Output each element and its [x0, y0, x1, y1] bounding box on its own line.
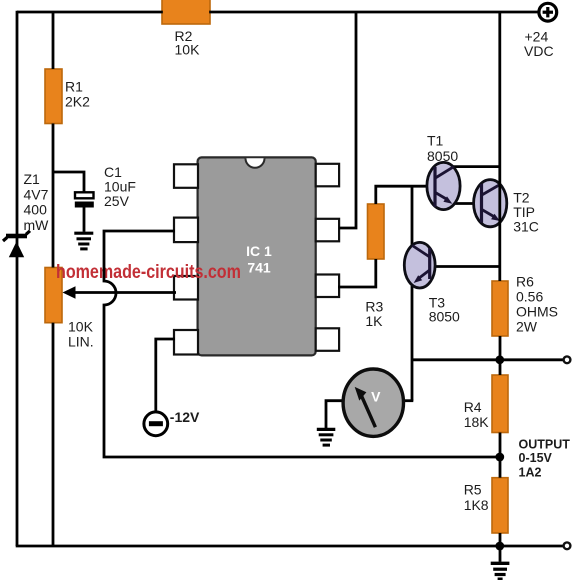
wire top rail right of R2: [209, 11, 539, 14]
label R4 18K: [464, 399, 490, 430]
svg-text:-12V: -12V: [170, 409, 200, 425]
svg-text:OHMS: OHMS: [516, 304, 558, 320]
transistor T2: [474, 180, 507, 227]
label T2 TIP 31C: [513, 190, 539, 235]
svg-text:OUTPUT: OUTPUT: [519, 437, 571, 451]
resistor R3 body: [368, 204, 385, 259]
wire pot bottom: [52, 323, 55, 546]
wire C1 to ground: [83, 207, 86, 232]
pin 7: [316, 219, 339, 242]
wire C1 branch: [53, 172, 84, 193]
wire R3 bottom to pin6: [338, 259, 376, 287]
wire bottom rail: [16, 545, 564, 548]
pin 6: [316, 275, 339, 298]
svg-text:R6: R6: [516, 274, 534, 290]
label Z1 4V7 400 mW: [24, 171, 50, 233]
wire T3 collector drop: [411, 186, 414, 245]
label R6 0.56 OHMS 2W: [516, 274, 558, 335]
svg-text:T1: T1: [427, 133, 444, 149]
svg-text:0.56: 0.56: [516, 289, 543, 305]
svg-text:R1: R1: [65, 78, 83, 94]
resistor R5 body: [492, 478, 508, 533]
node junction R5/ground: [495, 542, 504, 551]
pin 4: [174, 330, 198, 355]
wire pin4 to -12V: [156, 339, 175, 412]
label R1 2K2: [65, 78, 90, 109]
transistor T1: [427, 162, 460, 209]
svg-text:10K: 10K: [175, 42, 201, 58]
op-amp U1 IC1 741 body: [198, 157, 316, 355]
svg-text:2K2: 2K2: [65, 93, 90, 109]
svg-text:2W: 2W: [516, 319, 538, 335]
terminal output bottom: [564, 542, 571, 549]
wire pin7 riser: [339, 12, 356, 228]
wire top rail: [17, 11, 163, 14]
wire junction to R5: [499, 457, 502, 478]
right +24 rail over T2: [498, 12, 501, 281]
label R2 10K: [175, 28, 201, 58]
wire bottom ground stub: [499, 546, 502, 562]
resistor R4 body: [492, 375, 508, 433]
wiper arrowhead: [63, 286, 76, 298]
svg-text:10K: 10K: [68, 319, 94, 335]
terminal -12V: [144, 412, 168, 436]
wire left rail: [16, 11, 19, 546]
voltmeter V: [343, 369, 403, 436]
wire output to terminal: [500, 358, 564, 361]
node junction R6/output: [495, 355, 504, 364]
IC1 label: [246, 243, 272, 276]
resistor R1 body: [45, 69, 62, 124]
potentiometer P1 body: [45, 268, 62, 323]
svg-text:18K: 18K: [464, 414, 490, 430]
wire R6 bottom: [499, 336, 502, 360]
pin 3: [174, 276, 198, 300]
wire junction to R4: [499, 360, 502, 375]
label R5 1K8: [464, 481, 489, 513]
node junction R4/R5: [495, 453, 504, 462]
wire meter plus terminal: [403, 399, 413, 402]
pin 1: [174, 164, 198, 188]
svg-text:1K8: 1K8: [464, 497, 489, 513]
terminal +24 VDC: [539, 3, 557, 21]
wire T3 base: [430, 265, 500, 268]
svg-text:LIN.: LIN.: [68, 333, 94, 349]
resistor R6 body: [492, 281, 508, 336]
wire R4 to junction: [499, 433, 502, 458]
svg-text:25V: 25V: [104, 193, 130, 209]
ground (meter): [317, 429, 336, 445]
svg-text:R5: R5: [464, 481, 482, 497]
svg-text:1A2: 1A2: [519, 465, 542, 479]
svg-text:mW: mW: [24, 217, 50, 233]
zener Z1: [3, 231, 30, 257]
svg-text:homemade-circuits.com: homemade-circuits.com: [56, 260, 241, 282]
pin 5: [316, 328, 339, 351]
svg-text:R4: R4: [464, 399, 482, 415]
svg-text:31C: 31C: [513, 219, 539, 235]
svg-text:0-15V: 0-15V: [519, 451, 553, 465]
wire T1 collector to rail: [452, 165, 500, 168]
wire pot wiper to pin3: [74, 291, 176, 294]
wire output branch: [412, 358, 500, 361]
wire meter minus to ground: [326, 401, 344, 430]
label 10K LIN.: [68, 319, 94, 350]
ground (C1): [74, 233, 93, 249]
wire T3 emitter drop: [411, 286, 414, 401]
svg-text:IC 1: IC 1: [246, 243, 272, 259]
wire R1 top: [52, 12, 55, 69]
label T1 8050: [427, 133, 458, 165]
svg-text:+24: +24: [525, 28, 549, 44]
pin 2: [174, 218, 198, 243]
svg-text:1K: 1K: [365, 313, 383, 329]
wire R3 top stub: [376, 186, 428, 204]
svg-text:400: 400: [24, 202, 48, 218]
transistor T3: [404, 242, 435, 288]
label T3 8050: [429, 294, 460, 324]
terminal output mid: [564, 356, 571, 363]
wire R1 to pot: [52, 124, 55, 268]
wire pin2 feedback: [104, 231, 500, 457]
svg-text:741: 741: [247, 260, 271, 276]
svg-text:8050: 8050: [427, 148, 458, 164]
label R3 1K: [365, 298, 383, 329]
wire T1 emitter to T2 base: [451, 202, 475, 205]
svg-text:VDC: VDC: [524, 43, 554, 59]
wire R5 to bottom rail: [499, 533, 502, 546]
svg-text:8050: 8050: [429, 308, 460, 324]
svg-text:R3: R3: [365, 298, 383, 314]
label C1 10uF 25V: [104, 164, 136, 209]
resistor R2 body: [162, 0, 210, 24]
svg-text:Z1: Z1: [24, 171, 41, 187]
svg-text:V: V: [371, 389, 381, 405]
ground (output): [491, 563, 510, 579]
svg-text:4V7: 4V7: [24, 186, 49, 202]
pin 8: [316, 164, 339, 187]
label OUTPUT 0-15V 1A2: [519, 437, 571, 479]
capacitor C1 plates: [75, 192, 94, 207]
label +24 VDC: [524, 28, 554, 59]
